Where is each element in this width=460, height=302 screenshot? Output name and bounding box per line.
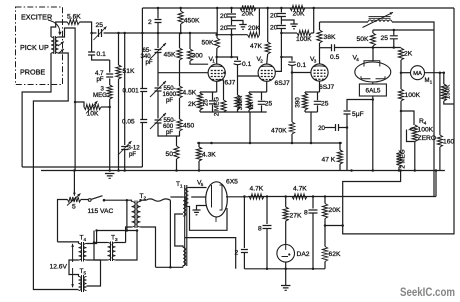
capacitor 2 filter xyxy=(241,250,248,253)
wire V4 to box xyxy=(372,82,374,84)
svg-text:PROBE: PROBE xyxy=(20,68,45,77)
wire T3 left vertical xyxy=(93,231,95,261)
svg-text:0.1: 0.1 xyxy=(242,61,252,68)
svg-text:3: 3 xyxy=(314,59,317,64)
label 27K xyxy=(290,213,302,220)
wire 2cap stub xyxy=(157,8,159,19)
label V5 xyxy=(197,180,204,188)
transformer T2 left coil xyxy=(132,202,136,228)
svg-text:20K: 20K xyxy=(242,11,254,18)
label 6SJ7 no2 xyxy=(319,84,335,91)
wire net1 caps to plate node xyxy=(231,35,233,57)
wire secondary-top right-down xyxy=(59,28,76,171)
wire rheostat right xyxy=(81,199,89,201)
resistor 2K meter xyxy=(398,48,403,73)
switch 115VAC xyxy=(88,196,105,202)
label 8 no2 xyxy=(304,210,308,217)
svg-text:2: 2 xyxy=(148,19,152,26)
label 160 xyxy=(443,139,454,146)
capacitor 25 bypass no2 xyxy=(314,92,322,112)
label 100K no1 xyxy=(296,36,312,43)
svg-text:20K: 20K xyxy=(293,11,305,18)
svg-text:2K: 2K xyxy=(188,101,197,108)
wire net1 right xyxy=(258,8,260,35)
svg-text:20: 20 xyxy=(318,125,325,132)
inductor tank (variable) xyxy=(363,12,394,27)
svg-text:25: 25 xyxy=(381,35,389,42)
wire rheostat wiper xyxy=(73,171,76,196)
resistor 51K xyxy=(116,65,121,79)
label 10K xyxy=(87,111,99,118)
svg-text:pF: pF xyxy=(166,129,173,136)
label 2K screen (rotated) xyxy=(248,101,255,109)
wire 20K branch xyxy=(324,197,326,204)
transformer pickup secondary coil xyxy=(56,37,59,53)
svg-text:450K: 450K xyxy=(184,18,200,25)
svg-text:5: 5 xyxy=(72,204,76,211)
label 390 (rotated) xyxy=(295,97,302,108)
tube V1 6J7 xyxy=(208,64,225,81)
wire 5uF down xyxy=(346,114,348,171)
label 50K plate xyxy=(202,40,214,47)
wire DA2 ground xyxy=(285,262,287,285)
capacitor 20 net1 bottom xyxy=(227,17,236,35)
label 4.7K no2 xyxy=(293,186,307,193)
resistor 47K no2 xyxy=(337,143,342,171)
wire T3 left top xyxy=(94,242,108,244)
svg-text:25: 25 xyxy=(265,101,273,108)
wire V2 cathode bar xyxy=(249,91,267,93)
wire R4 down xyxy=(414,142,416,171)
svg-text:50K: 50K xyxy=(202,40,214,47)
label V4 xyxy=(353,55,360,63)
wire bus to switch line xyxy=(126,200,128,230)
svg-text:47 K: 47 K xyxy=(322,157,336,164)
transformer pickup primary coil xyxy=(51,37,54,53)
label R4 100K xyxy=(418,127,434,134)
svg-text:20: 20 xyxy=(270,13,278,20)
wire V2 coupling xyxy=(275,57,292,71)
wire net1 bottom bar xyxy=(217,34,247,36)
svg-text:SeekIC.com: SeekIC.com xyxy=(400,287,455,299)
resistor 62K xyxy=(322,247,327,262)
rheostat 5 xyxy=(67,194,81,206)
svg-text:6X5: 6X5 xyxy=(226,179,238,186)
transformer pickup core xyxy=(54,36,56,54)
svg-text:2K: 2K xyxy=(404,51,413,58)
svg-text:470K: 470K xyxy=(271,128,287,135)
resistor 300K gridleak xyxy=(235,76,240,112)
label 45K xyxy=(164,52,176,59)
arrow exciter-to-coil xyxy=(48,20,62,36)
wire network bottom bar xyxy=(200,111,267,113)
ground net1 xyxy=(239,25,247,30)
wire inner return xyxy=(22,166,142,168)
svg-text:MA: MA xyxy=(413,71,422,77)
label DA2 xyxy=(297,251,310,258)
label 38K xyxy=(324,34,336,41)
svg-text:25: 25 xyxy=(203,99,210,106)
wire ground rail xyxy=(41,170,445,172)
watermark SeekIC.com xyxy=(400,287,455,299)
wire 5uF branch xyxy=(347,100,373,111)
resistor 47K plate xyxy=(265,8,270,54)
resistor 20K no1 xyxy=(240,5,256,10)
capacitor 25 (variable, series) xyxy=(94,27,107,41)
wire primary-bottom down-left xyxy=(22,53,51,167)
label V3 xyxy=(310,56,317,64)
label 6J7 xyxy=(225,80,236,87)
resistor 45K xyxy=(177,33,182,60)
wire 0.5 to V4 node xyxy=(335,47,401,49)
wire network drop xyxy=(249,112,251,143)
resistor 100K screen-feed xyxy=(281,30,313,35)
svg-text:115 VAC: 115 VAC xyxy=(88,208,114,215)
label 5uF xyxy=(352,111,364,118)
wire V1 cathode xyxy=(216,81,218,92)
svg-text:150K: 150K xyxy=(445,84,452,99)
label 25 bypass no2 xyxy=(321,101,329,108)
label 20 net2 bottom xyxy=(270,25,278,32)
transformer T3 right coil xyxy=(112,243,115,261)
wire 2cap to rail xyxy=(157,23,159,34)
label 20K no1 xyxy=(242,11,254,18)
wire top B+ rail xyxy=(142,7,454,9)
wire filter bottom rail xyxy=(244,268,325,270)
resistor 50K meter shunt xyxy=(441,73,454,104)
wire right edge xyxy=(343,8,454,234)
wire tank bar xyxy=(373,29,434,31)
svg-text:62K: 62K xyxy=(329,251,341,258)
svg-text:0.1: 0.1 xyxy=(297,62,307,69)
resistor 2K cathode xyxy=(197,92,202,112)
wire net2 caps to plate node xyxy=(280,33,282,57)
ground net2 xyxy=(290,24,298,29)
wire coupling to V2 grid xyxy=(238,65,259,76)
capacitor 20 net2 top xyxy=(277,8,286,17)
label R4 xyxy=(419,118,427,126)
label 65-340 pF xyxy=(141,47,153,66)
wire 8cap1 down xyxy=(266,229,268,269)
label 550-1600 pF no1 xyxy=(163,85,177,104)
transformer T3 core xyxy=(111,242,113,262)
svg-text:0.001: 0.001 xyxy=(123,88,140,95)
capacitor 20 net1 top xyxy=(227,8,236,17)
svg-text:6J7: 6J7 xyxy=(225,80,236,87)
label R4 ZERO xyxy=(418,135,437,142)
label 550-1600 pF no2 xyxy=(163,117,176,136)
svg-text:50K: 50K xyxy=(357,36,369,43)
label EXCITER xyxy=(21,13,52,22)
label 100K meter xyxy=(405,92,421,99)
svg-text:8: 8 xyxy=(304,210,308,217)
tube V3 6SJ7 xyxy=(311,64,328,81)
resistor 160 xyxy=(437,135,442,171)
wire 51K down xyxy=(118,79,120,171)
svg-text:100K: 100K xyxy=(418,127,434,134)
wire V3 network drop xyxy=(310,112,312,143)
svg-text:4: 4 xyxy=(84,237,87,242)
capacitor 0.05 xyxy=(140,120,147,123)
wire 20cap right stub xyxy=(339,127,347,129)
capacitor 65-340 pF (variable) xyxy=(150,33,166,59)
transformer T5 core xyxy=(82,275,84,292)
resistor 4.5K xyxy=(177,60,182,98)
wire 27K branch xyxy=(285,197,287,208)
label 6AL5 xyxy=(366,88,381,95)
wire T1 to V5 plate A xyxy=(189,187,207,189)
svg-text:38K: 38K xyxy=(324,34,336,41)
transformer T5 left coil xyxy=(79,277,82,291)
svg-text:6AL5: 6AL5 xyxy=(366,88,381,95)
wire B+ rail xyxy=(248,171,436,197)
svg-text:pF: pF xyxy=(166,97,173,104)
svg-text:ZERO: ZERO xyxy=(418,135,437,142)
wire V3 plate up xyxy=(319,48,321,64)
wire T2 right top xyxy=(141,199,171,202)
resistor 20K no3 xyxy=(290,5,305,10)
wire T1 low coil bottom xyxy=(182,266,184,268)
potentiometer 10K xyxy=(84,101,101,114)
transformer T4 right coil xyxy=(83,244,86,261)
wire switch to T2 xyxy=(104,200,132,201)
svg-text:5.6K: 5.6K xyxy=(67,14,81,21)
ground DA2 xyxy=(281,286,291,291)
wire 2cap down xyxy=(243,253,245,269)
capacitor 25 tank xyxy=(390,30,398,48)
resistor 50 xyxy=(174,136,179,171)
wire T1 coil upper bottom xyxy=(189,207,228,231)
wire net2 right xyxy=(313,8,315,33)
resistor 5.6K xyxy=(67,19,79,24)
wire V1 cathode bar xyxy=(200,91,217,93)
label 12.6V xyxy=(50,264,68,271)
svg-text:25: 25 xyxy=(96,22,104,29)
label 0.05 xyxy=(122,119,135,126)
label 20 mid xyxy=(318,125,325,132)
wire 3-12pF branch xyxy=(124,33,126,145)
svg-text:1: 1 xyxy=(180,184,183,189)
wire 5.6K to grid rail xyxy=(80,22,92,33)
label 4.3K xyxy=(202,152,216,159)
wire 100K to 2MEG xyxy=(400,101,402,151)
resistor 100K meter xyxy=(398,73,403,101)
label 450 xyxy=(183,123,194,130)
label 6SJ7 no1 xyxy=(275,80,291,87)
wire grid rail left xyxy=(92,32,97,34)
wire cap column mid xyxy=(141,92,143,120)
svg-text:3: 3 xyxy=(115,237,118,242)
resistor 390 xyxy=(302,92,307,112)
resistor 2K screen xyxy=(246,92,251,112)
label PROBE xyxy=(20,68,45,77)
label 20 net2 top xyxy=(270,13,278,20)
resistor 450K xyxy=(178,8,183,33)
potentiometer R4 100K ZERO xyxy=(407,125,418,142)
resistor 3 MEG xyxy=(107,79,112,100)
label 20 net1 bottom xyxy=(220,25,228,32)
label 450K xyxy=(184,18,200,25)
resistor 20K no2 xyxy=(248,32,260,37)
label 115 VAC xyxy=(88,208,114,215)
wire V1 plate up xyxy=(216,48,218,64)
capacitor 0.1 coupling no2 xyxy=(288,62,296,65)
wire T4-T5 left link xyxy=(69,260,79,277)
probe box (dash-dot enclosure) xyxy=(16,7,63,85)
transformer T3 left coil xyxy=(108,243,111,261)
svg-text:pF: pF xyxy=(97,76,104,83)
capacitor 0.1 xyxy=(88,52,95,55)
label 25 bypass no1 xyxy=(265,101,273,108)
wire 20K to 62K xyxy=(324,219,326,247)
wire pot left xyxy=(75,102,84,107)
svg-text:EXCITER: EXCITER xyxy=(21,13,52,22)
svg-text:2K: 2K xyxy=(248,101,255,109)
label 25 xyxy=(96,22,104,29)
label 300 xyxy=(192,53,203,60)
svg-text:4: 4 xyxy=(356,57,359,62)
wire R4 branch xyxy=(401,111,414,125)
wire tank rail left xyxy=(320,21,369,23)
svg-text:25: 25 xyxy=(321,101,329,108)
wire coupling to V3 grid xyxy=(292,66,311,73)
wire T2 right bottom xyxy=(141,227,156,267)
resistor 470K xyxy=(289,73,294,144)
capacitor 4.7 pF xyxy=(106,74,113,77)
wire V5 output xyxy=(226,196,248,198)
wire V3 cathode bar xyxy=(305,91,320,93)
label 0.001 xyxy=(123,88,140,95)
annotation 12.6V arrow xyxy=(71,244,74,287)
label 0.5 xyxy=(330,54,340,61)
svg-text:100K: 100K xyxy=(296,36,312,43)
wire meter right xyxy=(425,72,444,74)
svg-text:300: 300 xyxy=(192,53,203,60)
label V1 xyxy=(209,56,216,64)
wire 62K down xyxy=(324,262,326,269)
svg-text:2: 2 xyxy=(260,59,263,64)
label 2K meter xyxy=(404,51,413,58)
wire cap column bottom xyxy=(141,123,143,168)
wire V3 cathode xyxy=(319,81,321,92)
wire T4 top feed xyxy=(58,242,79,244)
wire 8cap2 branch xyxy=(312,197,314,209)
wire net2 ground stub xyxy=(281,20,294,24)
wire cap column xyxy=(141,8,143,89)
resistor 27K xyxy=(283,207,288,221)
label M1 xyxy=(425,78,433,85)
label 0.1 no1 xyxy=(242,61,252,68)
wire V4 plate feed xyxy=(372,48,374,61)
wire net1 ground stub xyxy=(232,21,244,25)
wire T3 right top xyxy=(116,242,126,244)
svg-text:12.6V: 12.6V xyxy=(50,264,68,271)
svg-text:pF: pF xyxy=(146,59,153,66)
label 25 tank xyxy=(381,35,389,42)
svg-text:100K: 100K xyxy=(405,92,421,99)
ground main xyxy=(105,174,115,179)
label 20K no2 xyxy=(248,25,260,32)
wire 27K to DA2 xyxy=(285,221,287,245)
label 300K (rotated) xyxy=(237,95,244,110)
svg-text:6SJ7: 6SJ7 xyxy=(319,84,335,91)
resistor 50K plate xyxy=(214,35,219,48)
transformer T1 coil upper-right xyxy=(186,188,189,207)
label 4.5K xyxy=(183,90,197,97)
label 20K no3 xyxy=(293,11,305,18)
label 62K xyxy=(329,251,341,258)
wire 3-12pF down xyxy=(124,150,126,171)
meter M1 (MA) xyxy=(411,66,425,80)
wire T1 inner bracket xyxy=(175,214,183,248)
wire T4-T5 right link xyxy=(87,260,101,286)
transformer T4 left coil xyxy=(79,244,82,261)
label T2 xyxy=(140,193,147,201)
wire T1 bottom bar xyxy=(156,266,184,268)
svg-text:4.7K: 4.7K xyxy=(293,186,307,193)
wire 8cap2 down xyxy=(312,214,314,269)
label 3-12 pF xyxy=(128,145,141,159)
label 6X5 xyxy=(226,179,238,186)
svg-text:8: 8 xyxy=(258,225,262,232)
wire T3 right bottom xyxy=(116,231,138,261)
svg-text:4.3K: 4.3K xyxy=(202,152,216,159)
svg-text:50: 50 xyxy=(166,151,174,158)
tube V4 6AL5 xyxy=(355,61,391,82)
svg-text:45K: 45K xyxy=(164,52,176,59)
label 20K divider xyxy=(329,207,341,214)
label 2K cathode xyxy=(188,101,197,108)
wire T1 primary feed xyxy=(169,200,171,267)
svg-text:5: 5 xyxy=(201,182,204,187)
svg-text:20: 20 xyxy=(220,13,228,20)
wire heater bus xyxy=(97,230,137,232)
transformer T5 right coil xyxy=(84,277,87,291)
label T3 xyxy=(111,235,118,243)
resistor 4.7K no2 xyxy=(292,194,307,199)
wire primary-top to 5.6K xyxy=(51,22,67,37)
capacitor 5uF xyxy=(344,111,351,114)
capacitor 20 cathode xyxy=(209,92,216,112)
capacitor 8 no1 xyxy=(263,226,272,229)
capacitor 0.5 xyxy=(332,44,335,51)
label 3 MEG xyxy=(93,86,107,100)
label 2 xyxy=(148,19,152,26)
wire 160 feed xyxy=(439,73,441,135)
resistor 38K xyxy=(317,22,322,48)
wire T4 right top xyxy=(87,231,97,244)
svg-text:6SJ7: 6SJ7 xyxy=(275,80,291,87)
label 47K xyxy=(250,43,262,50)
label T4 xyxy=(80,235,87,243)
transformer T1 coil lower-left xyxy=(183,248,186,266)
wire varcap chain bottom xyxy=(158,123,180,136)
svg-text:10K: 10K xyxy=(87,111,99,118)
wire T3 left bottom xyxy=(94,259,108,261)
tube V5 6X5 xyxy=(206,182,228,222)
label T5 xyxy=(80,268,87,276)
label 25 cathode (rotated) xyxy=(203,99,210,106)
label 0.1 xyxy=(97,51,107,58)
wire pot right xyxy=(101,106,110,108)
label 4.7K no1 xyxy=(250,186,264,193)
capacitor 0.001 xyxy=(140,89,147,92)
label 5 rheostat xyxy=(72,204,76,211)
wire T1 to V5 plate B xyxy=(191,196,206,198)
svg-text:390: 390 xyxy=(295,97,302,108)
capacitor 550-1600 pF no2 (variable) xyxy=(150,91,166,129)
svg-text:PICK UP: PICK UP xyxy=(20,43,49,52)
